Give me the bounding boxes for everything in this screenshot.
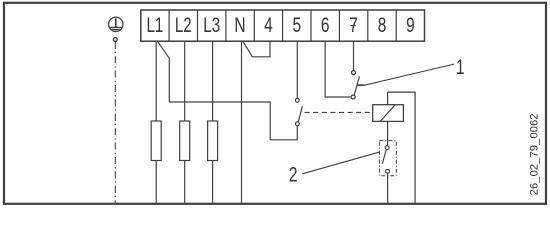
protective earth symbol PE xyxy=(109,17,123,31)
mechanical link dashed xyxy=(305,111,373,113)
svg-text:9: 9 xyxy=(406,13,415,37)
switch S5 top contact xyxy=(295,98,299,102)
wire coil top xyxy=(387,92,389,105)
leader line to label 1 xyxy=(365,64,454,85)
switch S2 top contact xyxy=(385,146,389,150)
relay coil K1 xyxy=(373,105,404,122)
wire N to terminal 4 bridge xyxy=(243,41,270,57)
svg-text:26_02_79_0062: 26_02_79_0062 xyxy=(529,113,541,195)
svg-text:L3: L3 xyxy=(203,13,220,37)
wire L3 to fuse F3 xyxy=(212,41,214,121)
svg-text:2: 2 xyxy=(289,163,298,187)
switch S5 blade xyxy=(298,106,302,122)
wire coil loop to bottom xyxy=(388,92,416,203)
svg-text:4: 4 xyxy=(264,13,273,37)
wire terminal 7 to switch S1 xyxy=(353,41,355,70)
leader line to label 2 xyxy=(302,152,379,174)
wire below F2 xyxy=(184,161,186,203)
terminal dividers xyxy=(169,10,396,41)
switch S1 bottom contact xyxy=(351,95,355,99)
wire bus to switch S5 xyxy=(169,102,297,140)
switch S2 bottom contact xyxy=(386,169,390,173)
wire coil to switch S2 xyxy=(387,121,389,145)
wire below switch S2 xyxy=(387,173,389,203)
wire below F3 xyxy=(212,161,214,203)
wire terminal 6 to switch S1 xyxy=(325,41,351,97)
svg-text:7: 7 xyxy=(349,13,358,37)
wire L2 to fuse F2 xyxy=(184,41,186,121)
switch S2 enclosure dash-dot box xyxy=(379,141,396,176)
wire L1 tap to bus xyxy=(158,41,170,102)
svg-text:8: 8 xyxy=(378,13,387,37)
svg-text:L1: L1 xyxy=(147,13,164,37)
switch S5 bottom contact xyxy=(296,122,300,126)
earth dash-dot line xyxy=(114,42,116,203)
relay coil diagonal xyxy=(380,105,395,122)
wire L1 to fuse F1 xyxy=(155,41,157,121)
wire N down xyxy=(241,41,243,203)
wire terminal 5 to switch S5 xyxy=(296,41,298,98)
svg-text:5: 5 xyxy=(293,13,302,37)
fuse F1 xyxy=(151,121,161,161)
earth node xyxy=(113,38,117,42)
svg-text:1: 1 xyxy=(456,55,465,79)
fuse F2 xyxy=(180,121,190,161)
svg-text:6: 6 xyxy=(321,13,330,37)
fuse F3 xyxy=(208,121,218,161)
switch S1 actuator bar xyxy=(357,84,364,86)
switch S1 blade xyxy=(354,76,359,95)
wire below F1 xyxy=(155,161,157,203)
svg-text:N: N xyxy=(234,13,245,37)
terminal block outline xyxy=(141,10,425,41)
switch S2 blade xyxy=(382,150,386,164)
switch S1 top contact xyxy=(352,71,356,75)
svg-text:L2: L2 xyxy=(175,13,192,37)
